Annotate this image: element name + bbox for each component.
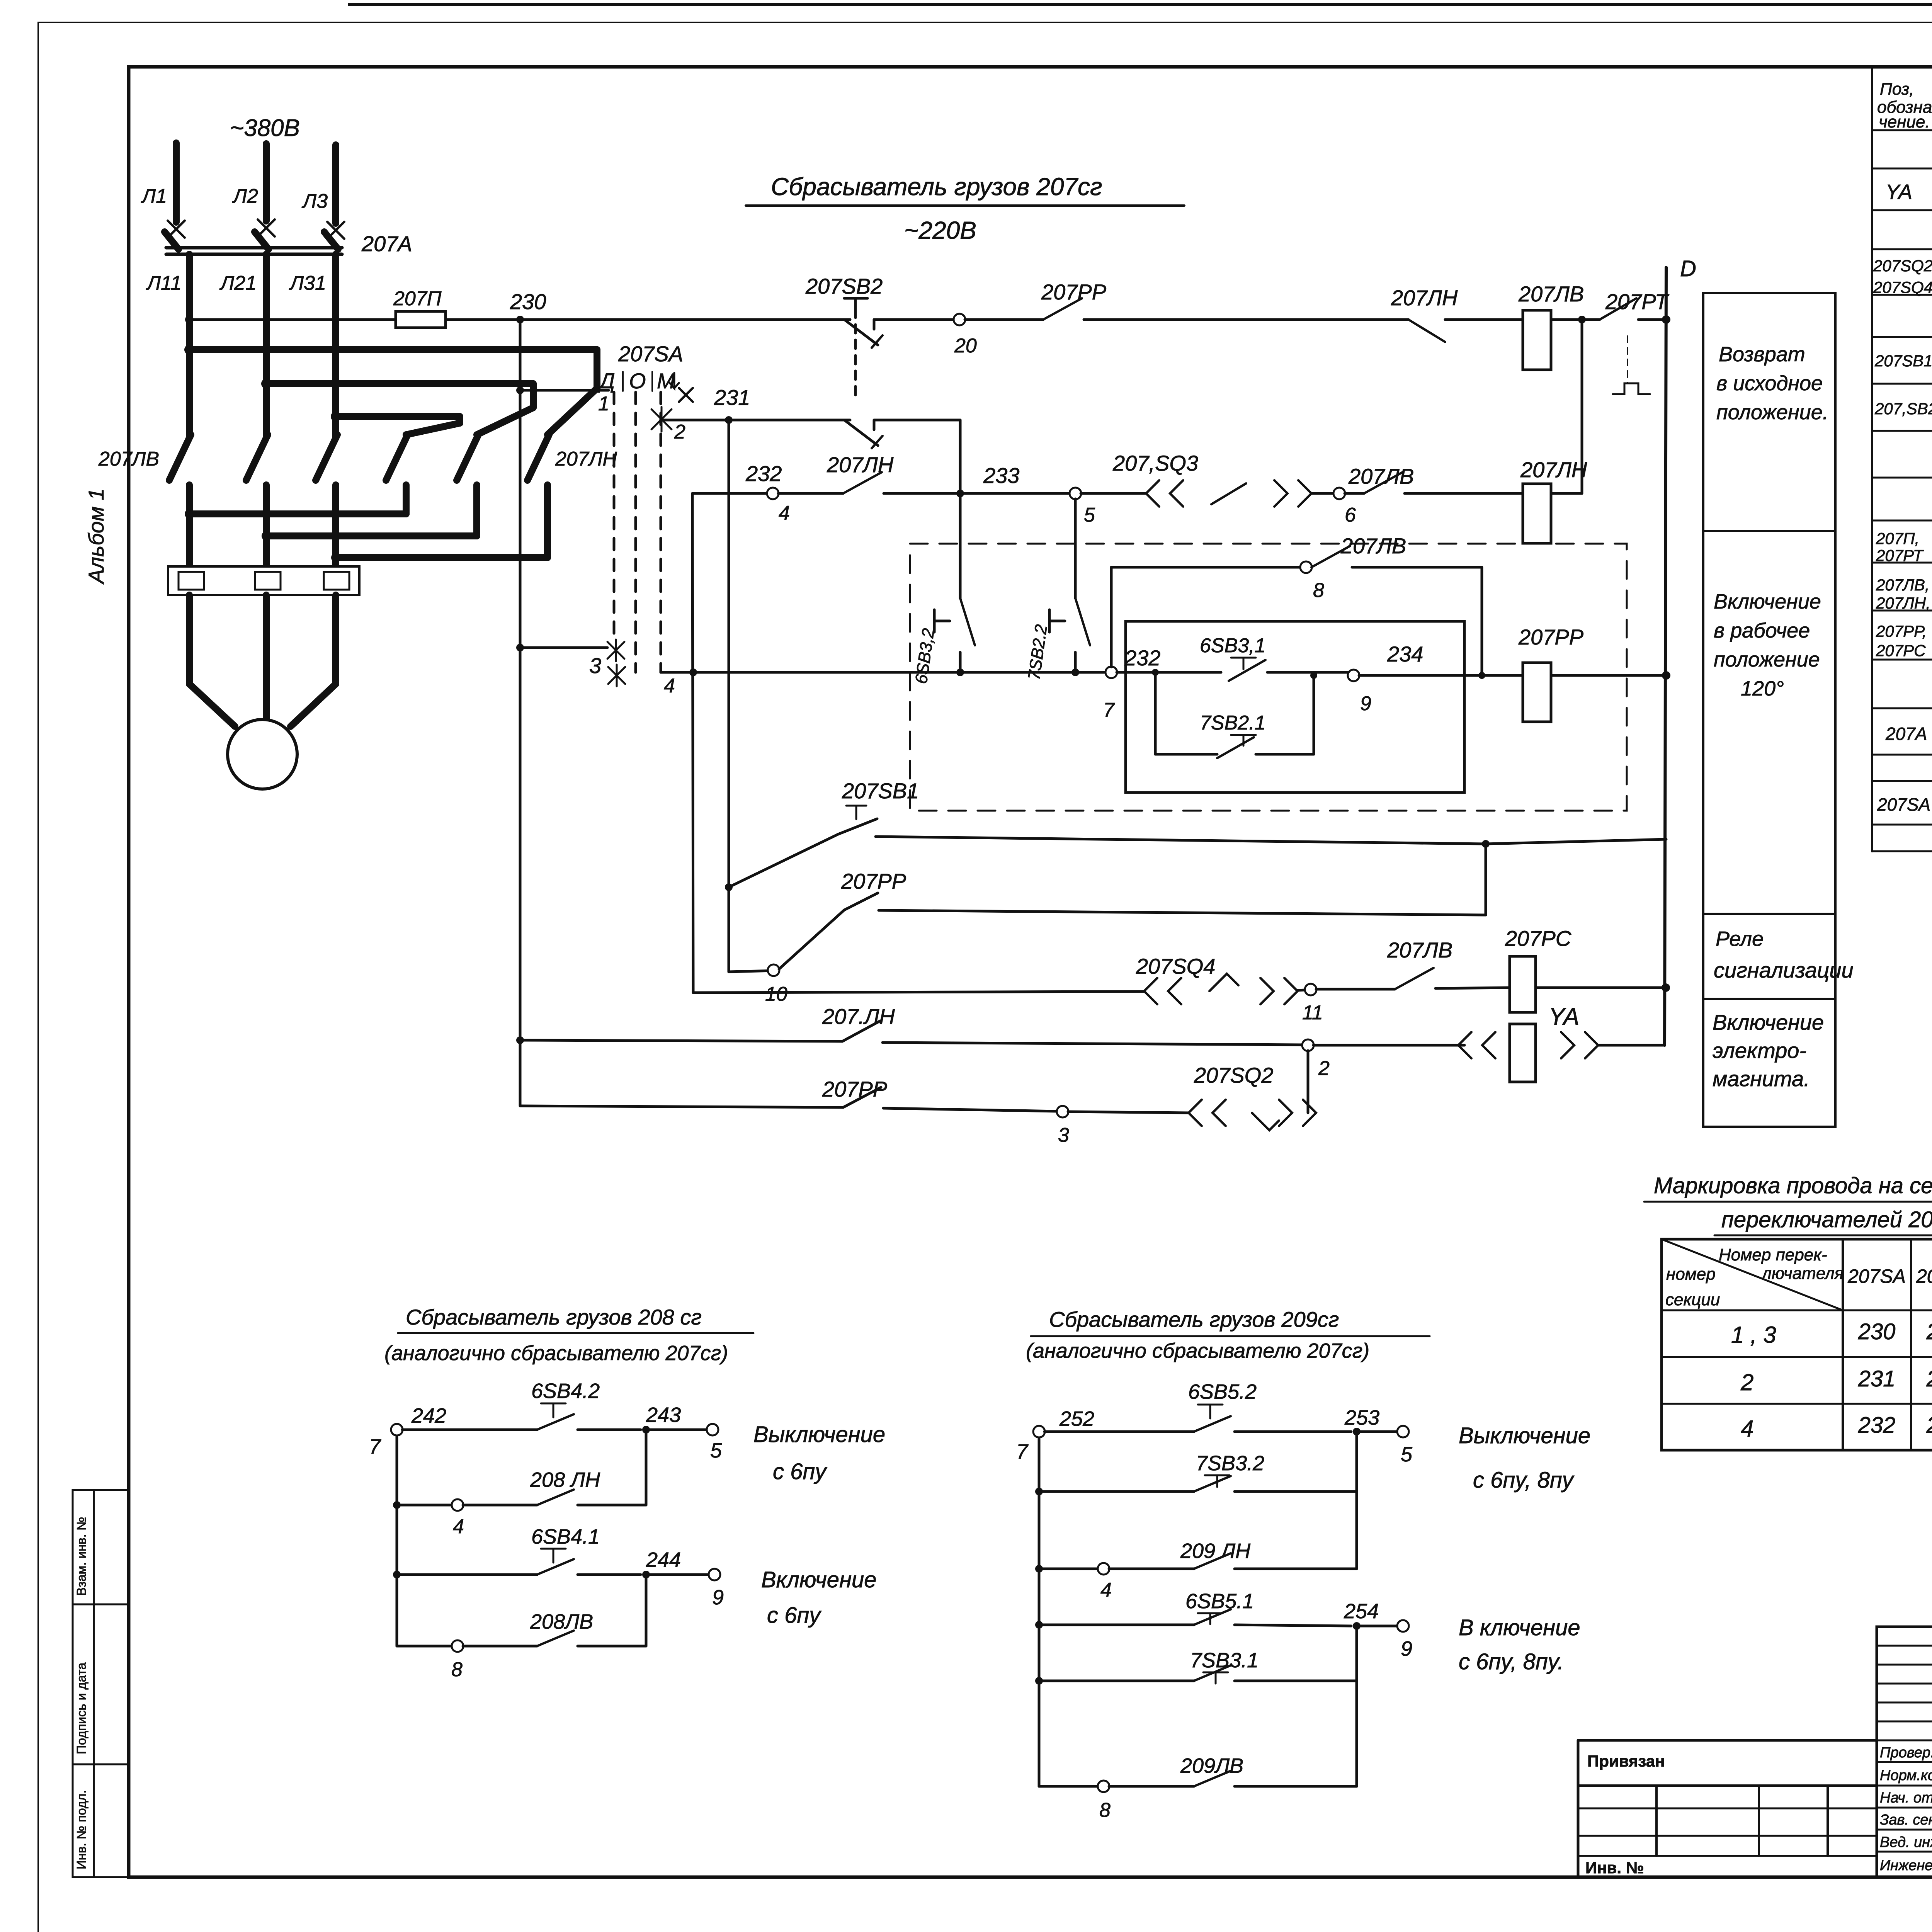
bus wire V1: [519, 320, 522, 1106]
node 6: [1333, 488, 1345, 499]
coil 207LV: [1523, 310, 1551, 370]
svg-text:209ЛВ: 209ЛВ: [1180, 1754, 1243, 1777]
breaker 207A blades: [165, 232, 179, 249]
bus V2: [728, 420, 730, 972]
svg-text:Л21: Л21: [219, 272, 257, 294]
svg-text:4: 4: [664, 675, 675, 697]
svg-text:207ЛВ,: 207ЛВ,: [1876, 576, 1930, 594]
reversing tie wire 1: [189, 346, 597, 353]
left margin box Podpis i data: [73, 1604, 129, 1764]
bus V3: [692, 493, 693, 993]
svg-text:в исходное: в исходное: [1716, 372, 1823, 395]
svg-text:207ЅВ1: 207ЅВ1: [842, 779, 919, 803]
svg-text:20: 20: [954, 335, 977, 357]
svg-text:230: 230: [510, 289, 546, 314]
svg-text:Норм.контр: Норм.контр: [1880, 1767, 1932, 1784]
wire terminal 1: [516, 386, 524, 394]
svg-text:231: 231: [714, 385, 750, 410]
svg-text:207ЛВ: 207ЛВ: [1518, 282, 1584, 306]
function box column: [1703, 293, 1835, 1127]
svg-text:207РТ: 207РТ: [1876, 546, 1924, 565]
rung 209LV: [1039, 1785, 1098, 1788]
svg-text:252: 252: [1059, 1407, 1094, 1430]
svg-text:Л3: Л3: [301, 190, 328, 213]
svg-text:207ЛН: 207ЛН: [1520, 457, 1587, 482]
svg-text:207ЅА: 207ЅА: [1877, 794, 1930, 815]
svg-text:207ЅQ2÷: 207ЅQ2÷: [1873, 257, 1932, 275]
svg-text:10: 10: [765, 983, 787, 1005]
svg-text:207ЅВ1: 207ЅВ1: [1874, 352, 1932, 370]
svg-text:Сбрасыватель грузов 209сг: Сбрасыватель грузов 209сг: [1049, 1307, 1339, 1332]
coil 207LN: [1523, 484, 1551, 543]
svg-text:положение.: положение.: [1716, 401, 1828, 424]
svg-text:4: 4: [779, 502, 790, 524]
dashed box remote control: [910, 544, 1627, 811]
svg-text:207,ЅQ3: 207,ЅQ3: [1112, 451, 1198, 475]
left margin box Inv No podl: [73, 1764, 129, 1877]
rung 254: [1035, 1621, 1043, 1629]
contactor 207LN contacts: [386, 435, 408, 480]
svg-text:чение.: чение.: [1879, 112, 1930, 131]
button 7SB2.1 bypass: [1154, 672, 1157, 754]
svg-text:207РР,: 207РР,: [1876, 622, 1927, 640]
svg-text:9: 9: [712, 1586, 724, 1609]
svg-text:Сбрасыватель грузов 208 сг: Сбрасыватель грузов 208 сг: [406, 1305, 702, 1329]
svg-text:с 6пу: с 6пу: [767, 1603, 821, 1628]
component table grid: [1871, 68, 1873, 851]
svg-text:207ЛН,: 207ЛН,: [1876, 594, 1930, 612]
wire drop SB1 to RR: [1485, 844, 1487, 915]
staff signature table: [1877, 1627, 1932, 1877]
svg-text:YA: YA: [1886, 180, 1912, 204]
svg-text:207ЅВ2: 207ЅВ2: [805, 274, 883, 298]
svg-text:1 , 3: 1 , 3: [1731, 1322, 1776, 1348]
rung 242-243: [391, 1424, 403, 1435]
svg-text:207.ЛН: 207.ЛН: [822, 1004, 895, 1029]
svg-text:207П,: 207П,: [1876, 529, 1919, 548]
svg-text:254: 254: [1344, 1600, 1379, 1623]
wire to coil 207LV: [1445, 318, 1523, 321]
svg-text:8: 8: [1099, 1799, 1111, 1821]
contact 207RR rung 10: [729, 971, 774, 972]
svg-text:207ЛН: 207ЛН: [555, 448, 617, 470]
svg-text:4: 4: [453, 1515, 464, 1538]
breaker 207A bus bars: [166, 246, 342, 250]
svg-text:с 6пу, 8пу: с 6пу, 8пу: [1473, 1468, 1575, 1493]
rung 244: [393, 1571, 401, 1578]
svg-text:YA: YA: [1549, 1003, 1579, 1030]
svg-text:234: 234: [1387, 642, 1423, 666]
svg-text:Инженер: Инженер: [1880, 1857, 1932, 1874]
svg-text:Привязан: Привязан: [1587, 1752, 1665, 1770]
svg-text:5: 5: [1084, 504, 1095, 526]
lower tie wire 2: [263, 485, 270, 536]
coil 207RR: [1523, 663, 1551, 722]
contact 207RR on rung 230: [965, 318, 1043, 321]
svg-text:207ЛВ: 207ЛВ: [1387, 938, 1452, 962]
svg-text:8: 8: [451, 1658, 463, 1681]
svg-text:Включение: Включение: [761, 1567, 877, 1592]
svg-text:2: 2: [674, 421, 685, 443]
svg-text:Реле: Реле: [1716, 927, 1764, 951]
phase wire L21: [263, 254, 270, 437]
svg-text:Нач. отд: Нач. отд: [1880, 1790, 1932, 1806]
svg-text:D: D: [1680, 256, 1696, 281]
svg-text:230: 230: [1858, 1319, 1896, 1344]
scan edge line top: [348, 3, 1932, 6]
phase line L1: [173, 143, 180, 222]
svg-text:7ЅВ3.2: 7ЅВ3.2: [1196, 1452, 1264, 1475]
svg-text:243: 243: [646, 1403, 681, 1427]
svg-text:с 6пу, 8пу.: с 6пу, 8пу.: [1459, 1649, 1564, 1674]
rung 7SB3.1: [1035, 1677, 1043, 1685]
actuator symbol 207RT: [1613, 383, 1650, 394]
svg-text:207ЅА: 207ЅА: [618, 342, 683, 366]
svg-text:Подпись и дата: Подпись и дата: [74, 1662, 88, 1754]
svg-text:магнита.: магнита.: [1713, 1066, 1810, 1091]
phase line L3: [332, 145, 339, 223]
svg-text:6ЅВ3,1: 6ЅВ3,1: [1200, 634, 1266, 657]
svg-text:М: М: [657, 369, 675, 393]
wire SQ2 up to node 2: [1307, 1051, 1310, 1113]
svg-text:120°: 120°: [1741, 677, 1784, 700]
svg-text:244: 244: [646, 1548, 681, 1571]
svg-text:232: 232: [745, 461, 782, 486]
switch 207SA section dashes: [613, 392, 616, 641]
svg-text:в рабочее: в рабочее: [1714, 619, 1810, 642]
lower tie wire 1: [186, 485, 193, 514]
node 3: [1057, 1106, 1068, 1117]
svg-text:Вед. инж.: Вед. инж.: [1880, 1834, 1932, 1850]
wire coil to node: [1551, 318, 1600, 321]
bus 209sg: [1038, 1437, 1041, 1786]
wire rung 232: [692, 492, 767, 495]
svg-text:207А: 207А: [1885, 724, 1927, 744]
svg-text:электро-: электро-: [1713, 1038, 1806, 1063]
svg-text:7: 7: [1016, 1440, 1029, 1463]
left margin box Vzam inv No: [73, 1490, 129, 1604]
rung 252-253: [1033, 1426, 1045, 1437]
svg-text:9: 9: [1401, 1637, 1412, 1660]
svg-text:207А: 207А: [361, 231, 412, 256]
svg-text:207П: 207П: [393, 287, 442, 310]
node 9: [1348, 670, 1359, 681]
svg-text:207РР: 207РР: [841, 869, 906, 893]
fuse mark L2: [258, 219, 275, 236]
contactor 207LV contacts: [169, 435, 191, 480]
svg-text:240: 240: [1926, 1319, 1932, 1344]
svg-text:секции: секции: [1665, 1290, 1720, 1309]
limit switch 207SQ4 rung: [693, 992, 1144, 993]
svg-text:Возврат: Возврат: [1719, 343, 1805, 366]
wire 230 to SB2: [446, 318, 850, 321]
svg-text:переключателей 207ЅА÷209ЅА: переключателей 207ЅА÷209ЅА: [1721, 1207, 1932, 1232]
electromagnet YA: [1458, 1032, 1471, 1058]
wire rung 231: [662, 419, 850, 422]
svg-text:(аналогично сбрасывателю 207: (аналогично сбрасывателю 207сг): [384, 1342, 728, 1365]
svg-text:5: 5: [710, 1439, 722, 1462]
svg-text:11: 11: [1302, 1002, 1323, 1024]
node 20: [874, 318, 954, 321]
svg-text:Сбрасыватель грузов 207сг: Сбрасыватель грузов 207сг: [771, 173, 1102, 201]
svg-text:207,ЅВ2: 207,ЅВ2: [1874, 400, 1932, 418]
rung 209LN: [1035, 1565, 1043, 1573]
svg-text:Альбом 1: Альбом 1: [84, 488, 108, 585]
svg-text:Включение: Включение: [1713, 1010, 1824, 1034]
bus 208sg: [396, 1435, 398, 1646]
svg-text:О: О: [629, 369, 646, 393]
marking table grid: [1662, 1239, 1932, 1450]
svg-text:208 ЛН: 208 ЛН: [530, 1468, 600, 1492]
svg-text:4: 4: [1741, 1416, 1753, 1442]
node 11: [1305, 984, 1316, 995]
inner box: [1126, 621, 1464, 793]
motor M: [228, 719, 297, 789]
phase wire L31: [332, 254, 339, 437]
phase line L2: [263, 144, 270, 221]
svg-text:3: 3: [589, 653, 601, 678]
svg-text:7ЅВ2.1: 7ЅВ2.1: [1200, 712, 1266, 734]
svg-text:(аналогично сбрасывателю 207: (аналогично сбрасывателю 207сг): [1026, 1339, 1369, 1362]
svg-text:6ЅВ4.2: 6ЅВ4.2: [531, 1379, 600, 1403]
button 207SB1 rung: [725, 883, 733, 891]
svg-text:207ЅА: 207ЅА: [1847, 1265, 1906, 1287]
wire drop to rung 232: [959, 420, 962, 493]
fuse mark L1: [168, 221, 185, 238]
star mark terminal 2: [651, 409, 672, 429]
svg-text:207ЅQ4: 207ЅQ4: [1873, 278, 1932, 296]
svg-text:207ЅQ2: 207ЅQ2: [1194, 1063, 1274, 1087]
svg-text:207ЛН: 207ЛН: [1391, 286, 1458, 310]
fuse 207P: [396, 311, 446, 328]
contact 207LV line 8: [1111, 566, 1301, 569]
svg-text:Включение: Включение: [1714, 590, 1821, 613]
svg-text:Поз,: Поз,: [1880, 80, 1914, 99]
svg-text:208ЛВ: 208ЛВ: [530, 1610, 593, 1633]
svg-text:4: 4: [1100, 1579, 1112, 1601]
fuse mark L3: [327, 222, 344, 239]
svg-text:Инв. №: Инв. №: [1585, 1859, 1644, 1877]
reversing tie wire 2: [266, 380, 533, 387]
svg-text:Л31: Л31: [289, 272, 327, 294]
svg-text:сигнализации: сигнализации: [1714, 958, 1854, 982]
svg-text:207РС: 207РС: [1505, 926, 1571, 951]
node 232-4: [767, 488, 779, 499]
svg-text:207РР: 207РР: [1041, 280, 1106, 304]
svg-text:с 6пу: с 6пу: [773, 1459, 827, 1484]
svg-text:лючателя: лючателя: [1761, 1264, 1844, 1283]
thermal overload block: [186, 514, 193, 566]
svg-text:7: 7: [1103, 699, 1115, 721]
svg-text:207РС: 207РС: [1876, 641, 1926, 660]
svg-text:Инв. № подл.: Инв. № подл.: [74, 1790, 88, 1869]
coil 207RS: [1510, 956, 1536, 1012]
svg-text:253: 253: [1344, 1406, 1379, 1429]
svg-text:231: 231: [1858, 1366, 1896, 1391]
rung 208LN: [393, 1501, 401, 1509]
svg-text:6ЅВ4.1: 6ЅВ4.1: [531, 1525, 600, 1548]
svg-text:2: 2: [1740, 1369, 1753, 1395]
svg-text:207ЛН: 207ЛН: [827, 452, 894, 477]
svg-text:2: 2: [1318, 1057, 1330, 1080]
node 2: [1302, 1039, 1314, 1051]
svg-text:Выключение: Выключение: [1459, 1423, 1590, 1448]
wire rung 230: [185, 315, 194, 324]
rung 7SB3.2: [1035, 1488, 1043, 1495]
svg-text:6ЅВ5.1: 6ЅВ5.1: [1185, 1590, 1254, 1613]
svg-text:6ЅВ3,2: 6ЅВ3,2: [912, 627, 938, 685]
svg-text:Взам. инв. №: Взам. инв. №: [74, 1517, 88, 1596]
svg-text:242: 242: [1926, 1413, 1932, 1438]
svg-text:8: 8: [1313, 579, 1324, 602]
contact SB2.2: [844, 420, 878, 446]
svg-text:В ключение: В ключение: [1459, 1615, 1580, 1640]
svg-text:232: 232: [1124, 646, 1160, 670]
wire to 207LN contact: [1084, 318, 1408, 321]
svg-text:Маркировка провода на сек: Маркировка провода на секциях: [1654, 1173, 1932, 1198]
privyazan box: [1578, 1739, 1877, 1742]
phase wire L11: [186, 254, 193, 437]
svg-text:208ЅА: 208ЅА: [1916, 1265, 1932, 1287]
svg-text:Номер перек-: Номер перек-: [1719, 1245, 1827, 1264]
reversing tie wire 3: [336, 413, 460, 420]
svg-text:242: 242: [411, 1404, 446, 1427]
svg-text:6: 6: [1345, 504, 1356, 526]
wire coil up to rung 230: [1581, 320, 1583, 493]
svg-text:207РР: 207РР: [1518, 625, 1583, 649]
motor leads: [186, 595, 193, 684]
contact 207RR rung SQ2: [520, 1106, 843, 1107]
svg-text:положение: положение: [1714, 648, 1820, 671]
svg-text:Л2: Л2: [232, 185, 258, 207]
svg-text:232: 232: [1858, 1413, 1896, 1438]
node 7-232: [1105, 667, 1117, 678]
svg-text:7: 7: [369, 1435, 381, 1458]
svg-text:9: 9: [1360, 692, 1371, 715]
lower tie wire 3: [332, 485, 339, 558]
svg-text:Л11: Л11: [146, 272, 182, 294]
svg-text:6ЅВ5.2: 6ЅВ5.2: [1188, 1380, 1257, 1403]
svg-text:5: 5: [1401, 1443, 1413, 1466]
node 5: [1070, 488, 1081, 499]
svg-text:номер: номер: [1666, 1265, 1716, 1284]
svg-text:233: 233: [983, 463, 1019, 488]
svg-text:Выключение: Выключение: [753, 1422, 885, 1447]
rung 208LV: [397, 1645, 452, 1648]
wire rung 234: [661, 671, 1106, 674]
svg-text:~380В: ~380В: [230, 115, 300, 141]
wire terminal 3: [516, 644, 524, 651]
svg-text:Зав. сект.: Зав. сект.: [1880, 1812, 1932, 1828]
svg-text:Л1: Л1: [141, 185, 167, 207]
svg-text:207ЅQ4: 207ЅQ4: [1136, 954, 1216, 978]
svg-text:241: 241: [1926, 1366, 1932, 1391]
svg-text:Провер.: Провер.: [1880, 1745, 1932, 1761]
svg-text:3: 3: [1058, 1124, 1069, 1146]
svg-text:1: 1: [598, 393, 609, 415]
svg-text:207ЛВ: 207ЛВ: [98, 448, 159, 470]
svg-text:~220В: ~220В: [904, 216, 976, 244]
contact 207LN rung YA: [516, 1036, 524, 1044]
